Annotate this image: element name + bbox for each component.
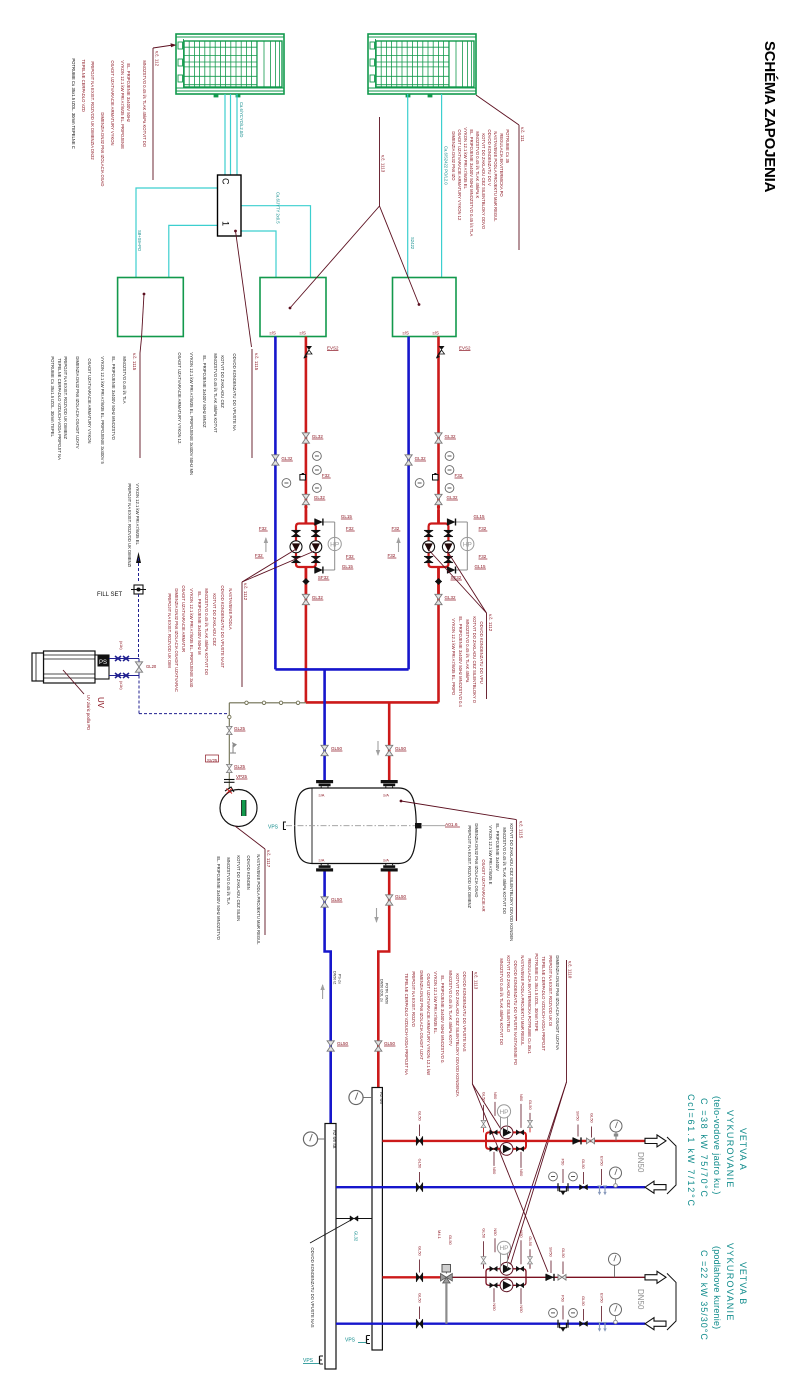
svg-text:EVS2: EVS2 — [459, 345, 471, 350]
svg-text:ODVOD KONDENZATU DO VPUSTE NAS: ODVOD KONDENZATU DO VPUSTE NAST — [220, 585, 225, 668]
svg-text:GL20: GL20 — [146, 664, 157, 669]
svg-text:v.č. 1115: v.č. 1115 — [132, 353, 137, 371]
valve GL25 b — [226, 764, 245, 773]
svg-text:OSADIT UZATVARACIE ARMATUR: OSADIT UZATVARACIE ARMATUR — [181, 585, 186, 652]
valve B return — [580, 1296, 588, 1326]
mixing valve M4.1 — [441, 1265, 453, 1324]
valve GL50 supply drop — [376, 741, 407, 756]
svg-text:KOTVIT DO ZAKLADU CEZ SILENTBL: KOTVIT DO ZAKLADU CEZ SILENTBLOKY ODVO — [481, 133, 486, 229]
gauge on supply manifold — [349, 1090, 372, 1104]
svg-text:GL50: GL50 — [482, 1092, 487, 1103]
valve branch A supply — [417, 1111, 423, 1145]
svg-text:ODVOD KONDENZATU DO VPUSTE NAS: ODVOD KONDENZATU DO VPUSTE NASTAVENIE PO — [513, 960, 518, 1065]
pipe branch B return — [336, 1322, 645, 1324]
svg-text:F32: F32 — [455, 473, 463, 478]
wire controller-unit2 a — [241, 206, 311, 278]
stub label at 432.5 — [433, 331, 440, 336]
svg-text:VETVA A: VETVA A — [738, 1128, 748, 1171]
svg-text:N50: N50 — [519, 1305, 524, 1313]
UV lamp unit — [32, 651, 109, 683]
stub label at 299.5 — [300, 331, 307, 336]
svg-text:PRIPOJIT NA EXIST. ROZVO: PRIPOJIT NA EXIST. ROZVO — [411, 971, 416, 1027]
svg-text:N50: N50 — [493, 1092, 498, 1100]
tank nozzle top return — [316, 780, 333, 798]
svg-text:DN50 IZOL 2x: DN50 IZOL 2x — [380, 979, 384, 1002]
svg-text:≥/S: ≥/S — [433, 331, 440, 336]
svg-text:GL32: GL32 — [354, 1231, 359, 1242]
instrument set circuit 2 — [405, 433, 463, 509]
svg-text:TEPELNE CERPADLO VZD: TEPELNE CERPADLO VZD — [81, 59, 86, 112]
buffer tank AKU — [286, 788, 423, 864]
svg-text:S2422: S2422 — [410, 237, 415, 250]
flow arrow up — [320, 984, 324, 999]
wire label 5 — [444, 146, 449, 185]
svg-text:GL50: GL50 — [418, 1246, 423, 1257]
pump group branch A — [481, 1092, 533, 1177]
svg-text:GL50: GL50 — [395, 894, 407, 899]
svg-text:v.č. 1115: v.č. 1115 — [519, 821, 524, 839]
gauge branch B return — [610, 1304, 622, 1324]
svg-text:GL50: GL50 — [418, 1159, 423, 1170]
branch A description — [686, 1094, 748, 1208]
label mix GL50 — [448, 1235, 453, 1246]
leader controller — [234, 230, 251, 347]
svg-text:GL50: GL50 — [337, 1041, 349, 1046]
branch B description — [699, 1243, 748, 1341]
svg-text:ODVOD KONDENZATU DO VPUSTE NA: ODVOD KONDENZATU DO VPUSTE NA — [232, 353, 237, 431]
svg-text:GL50: GL50 — [395, 746, 407, 751]
leader vessel — [235, 826, 265, 849]
leader box VJ1 — [140, 293, 145, 353]
wire TC2-unit3 a — [407, 94, 409, 278]
controller R1 — [218, 175, 242, 236]
wire controller-unit1 a — [136, 188, 218, 278]
annotation block 1110 — [499, 953, 573, 1082]
svg-text:F32: F32 — [479, 554, 487, 559]
svg-text:EL. PRIPOJENIE 3x400V 50Hz: EL. PRIPOJENIE 3x400V 50Hz — [126, 63, 131, 122]
svg-text:F32: F32 — [479, 526, 487, 531]
svg-text:VYKON 12.1 kW PRI A7/W35 EL. P: VYKON 12.1 kW PRI A7/W35 EL. PRIPOJENIE … — [100, 356, 105, 464]
svg-text:EL. PRIPOJENIE 3x400V 50Hz MNO: EL. PRIPOJENIE 3x400V 50Hz MNOZSTVO 0.4 — [458, 616, 463, 707]
pipe hot supply HP2 — [437, 337, 440, 703]
pipe branch A supply — [382, 1140, 645, 1142]
svg-text:MNOZSTVO 0.45 l/s TLAK 45kPa: MNOZSTVO 0.45 l/s TLAK 45kPa — [465, 619, 470, 683]
svg-text:VPS: VPS — [345, 1338, 356, 1344]
make-up pipe v1 — [138, 594, 140, 659]
svg-text:ODVOD KONDENZATU DO VPU: ODVOD KONDENZATU DO VPU — [479, 621, 484, 683]
svg-text:POTRUBIE Cu 35x1.5 IZOL. 30mm: POTRUBIE Cu 35x1.5 IZOL. 30mm TEPEL — [50, 356, 55, 437]
svg-text:NASTAVENIE PODLA PROJEKTU MaR: NASTAVENIE PODLA PROJEKTU MaR REGUL — [256, 854, 261, 945]
svg-text:DN50: DN50 — [636, 1152, 645, 1173]
gauge branch B supply — [609, 1253, 621, 1277]
annotation block 111 — [451, 95, 525, 250]
svg-text:Ca.6/S2422 PO/L2.0: Ca.6/S2422 PO/L2.0 — [444, 146, 449, 185]
svg-text:OSADIT UZATVARACIE ARMATURY VY: OSADIT UZATVARACIE ARMATURY VYKON 12. — [177, 352, 182, 444]
heat pump outdoor unit TC2 — [368, 34, 476, 97]
svg-text:MNOZSTVO 0.45 l/s TLA: MNOZSTVO 0.45 l/s TLA — [226, 857, 231, 904]
svg-text:GL15: GL15 — [341, 514, 353, 519]
svg-text:N50: N50 — [492, 1303, 497, 1311]
svg-text:F32: F32 — [255, 553, 263, 558]
indoor unit VJ2 — [260, 278, 326, 337]
svg-text:≥/S: ≥/S — [300, 331, 307, 336]
svg-text:≥/A: ≥/A — [383, 793, 389, 798]
svg-text:PRIPOJIT NA EXIST. ROZVOD UK D: PRIPOJIT NA EXIST. ROZVOD UK DIMENZI — [127, 483, 132, 567]
svg-text:MNOZSTVO 0.45 l/s TLAK 45kPa K: MNOZSTVO 0.45 l/s TLAK 45kPa KOTVIT DO — [502, 827, 507, 914]
svg-text:M4.1: M4.1 — [437, 1230, 442, 1240]
leader to pumps B2 — [509, 1082, 567, 1267]
svg-text:ODVOD KONDENZATU DO VPUSTE NAS: ODVOD KONDENZATU DO VPUSTE NAS — [310, 1247, 315, 1327]
dirt trap A return — [558, 1159, 568, 1196]
svg-text:(x1b): (x1b) — [119, 681, 123, 690]
make-up arrow — [136, 552, 141, 582]
svg-text:DIMENZIA DN32 PN6 IZOLACIA OSA: DIMENZIA DN32 PN6 IZOLACIA OSADIT UZATV — [75, 356, 80, 448]
svg-text:KOTVIT DO ZAKLADU CEZ SILENTBL: KOTVIT DO ZAKLADU CEZ SILENTBLOKY ODVOD … — [455, 973, 460, 1096]
svg-text:KOTVIT DO ZAKLADU CEZ: KOTVIT DO ZAKLADU CEZ — [220, 355, 225, 408]
leader to pumps A — [472, 1084, 502, 1131]
instrument set circuit 1 — [272, 433, 331, 509]
svg-text:N50: N50 — [519, 1230, 524, 1238]
annotation block 1115c — [400, 800, 524, 942]
valve GL50 below tank return — [321, 897, 343, 907]
svg-text:NASTAVENIE PODLA PROJEKTU MaR: NASTAVENIE PODLA PROJEKTU MaR REGUL — [520, 955, 525, 1046]
pipe note supply — [380, 979, 389, 1004]
pipe hot header — [306, 701, 439, 704]
gauge on return manifold — [303, 1132, 325, 1146]
thermometer A2 — [569, 1172, 578, 1181]
svg-text:UV ziaric podla PD: UV ziaric podla PD — [86, 695, 91, 730]
svg-text:v.č. 1112: v.č. 1112 — [243, 583, 248, 601]
svg-text:(podlahove kurenie): (podlahove kurenie) — [712, 1246, 722, 1329]
svg-text:GL50: GL50 — [331, 897, 343, 902]
indoor unit VJ1 — [118, 278, 184, 337]
svg-text:OSADIT UZATVARACIE ARMATURY VY: OSADIT UZATVARACIE ARMATURY VYKON 12.1 k… — [426, 973, 431, 1075]
svg-text:GL32: GL32 — [415, 456, 427, 461]
svg-text:FILL SET: FILL SET — [97, 592, 122, 598]
svg-text:v.č. 1110: v.č. 1110 — [568, 961, 573, 979]
svg-text:OSADIT UZATVARACIE ARMATURY VY: OSADIT UZATVARACIE ARMATURY VYKON 12 — [457, 129, 462, 221]
arrow branch A return — [645, 1181, 666, 1193]
wire label 2 — [276, 192, 281, 224]
leader box VJ2 — [289, 206, 380, 309]
svg-text:v.č. 1113: v.č. 1113 — [381, 155, 386, 173]
expansion vessel EN1 — [220, 787, 257, 827]
label UV — [63, 670, 105, 730]
svg-text:POTR. DN50: POTR. DN50 — [385, 983, 389, 1004]
arrow branch A supply DN50 — [636, 1135, 666, 1173]
wire label 1 — [239, 102, 244, 137]
make-up pipe v2 — [138, 659, 140, 676]
annotation block 1112a — [167, 549, 315, 692]
svg-text:POTRUBIE Cu 35x1.5 IZOL. 30mm: POTRUBIE Cu 35x1.5 IZOL. 30mm TEPE — [534, 953, 539, 1031]
UV port 1 — [109, 656, 139, 661]
svg-text:EV50: EV50 — [600, 1293, 605, 1304]
svg-text:Ccl=61.1 kW 7/12°C: Ccl=61.1 kW 7/12°C — [686, 1094, 696, 1208]
annotation block 1113b — [404, 970, 479, 1096]
svg-text:PRIPOJIT NA EXIST. ROZVOD UK D: PRIPOJIT NA EXIST. ROZVOD UK DIMENZ — [63, 356, 68, 439]
pipe hot drop to tank — [388, 702, 391, 780]
indoor unit VJ3 — [393, 278, 457, 337]
svg-text:GL32: GL32 — [281, 456, 293, 461]
svg-text:v.č. 1113: v.č. 1113 — [474, 972, 479, 990]
pipe return drop to tank — [323, 669, 326, 780]
svg-text:VETVA B: VETVA B — [738, 1262, 748, 1305]
svg-text:TEPELNE CERPADLO VZDUCH-VODA P: TEPELNE CERPADLO VZDUCH-VODA PRIPOJIT NA — [57, 358, 62, 460]
svg-text:MNOZSTVO 0.45 l/s TLAK 45kPa K: MNOZSTVO 0.45 l/s TLAK 45kPa K — [475, 131, 480, 198]
svg-text:F32: F32 — [346, 554, 354, 559]
drain B return — [597, 1293, 607, 1332]
heat pump outdoor unit TC1 — [176, 34, 284, 97]
svg-text:ODVOD KONDENZATU DO V: ODVOD KONDENZATU DO V — [487, 129, 492, 186]
ref label 1113 — [380, 117, 386, 206]
svg-text:GL50: GL50 — [590, 1113, 595, 1124]
svg-text:N50: N50 — [493, 1228, 498, 1236]
pipe return HP1 — [274, 337, 277, 670]
stub label at 402.5 — [403, 331, 410, 336]
label M4.1 — [437, 1230, 442, 1240]
annotation block V1115b — [177, 349, 259, 475]
svg-text:DIMENZIA DN32 PN6 IZOLACIA OSA: DIMENZIA DN32 PN6 IZOLACIA OSADIT UZATVA — [555, 955, 560, 1050]
valve branch B return — [417, 1293, 423, 1328]
svg-text:GL25: GL25 — [234, 764, 246, 769]
valve A return — [580, 1159, 588, 1190]
svg-text:GL50: GL50 — [528, 1236, 533, 1247]
svg-text:C =38 kW 75/70°C: C =38 kW 75/70°C — [699, 1098, 709, 1198]
svg-text:Ca.6/JYTY 2x0.5: Ca.6/JYTY 2x0.5 — [276, 192, 281, 224]
svg-text:GL50: GL50 — [418, 1293, 423, 1304]
svg-text:VYKON 12.1 kW PRI A7/W35 EL. P: VYKON 12.1 kW PRI A7/W35 EL. PRIPOJENIE — [120, 60, 125, 149]
drain SV25 — [206, 742, 238, 763]
svg-text:EV50: EV50 — [600, 1156, 605, 1167]
svg-text:ODVOD KONDENZATU DO VPUSTE NAS: ODVOD KONDENZATU DO VPUSTE NAS — [462, 971, 467, 1051]
pipe branch B supply from manifold — [382, 1276, 441, 1278]
svg-text:SV50: SV50 — [549, 1247, 554, 1258]
svg-text:PS: PS — [99, 660, 107, 666]
svg-text:GL32: GL32 — [314, 495, 326, 500]
supply manifold RS — [372, 1088, 384, 1351]
svg-text:GL50: GL50 — [561, 1248, 566, 1259]
svg-text:VPS: VPS — [268, 825, 279, 831]
pipe branch B supply mixed — [452, 1276, 645, 1278]
bypass valve — [336, 1216, 372, 1242]
valve branch B supply — [417, 1246, 423, 1282]
svg-text:REGULACIA EKVITERMICKA PO: REGULACIA EKVITERMICKA PO — [499, 133, 504, 197]
svg-text:F32: F32 — [259, 526, 267, 531]
svg-text:DIMENZIA DN32 PN6 IZOLACIA OSA: DIMENZIA DN32 PN6 IZOLACIA OSADIT UZAT — [419, 970, 424, 1060]
svg-text:≥/A: ≥/A — [319, 793, 325, 798]
vent EVS2 circuit 2 — [436, 345, 471, 358]
svg-text:MNOZSTVO 0.45 l/s TLAK 45kPa K: MNOZSTVO 0.45 l/s TLAK 45kPa KOTVIT DO — [499, 958, 504, 1045]
svg-text:F32: F32 — [322, 473, 330, 478]
svg-text:F32: F32 — [346, 526, 354, 531]
svg-text:GL32: GL32 — [445, 434, 457, 439]
svg-text:DIMENZIA DN32 PN6 IZOLACIA OSA: DIMENZIA DN32 PN6 IZOLACIA OSAD — [100, 112, 105, 186]
svg-text:GL50: GL50 — [528, 1100, 533, 1111]
leader box VJ3 — [380, 206, 421, 306]
svg-text:1: 1 — [221, 221, 231, 226]
svg-text:ODVOD KONDEN: ODVOD KONDEN — [246, 855, 251, 889]
svg-text:GL32: GL32 — [312, 434, 324, 439]
svg-text:v.č. 111: v.č. 111 — [520, 127, 525, 142]
wire controller-unit1 b — [169, 225, 218, 277]
svg-text:KOTVIT DO ZAKLADU CEZ SILEN: KOTVIT DO ZAKLADU CEZ SILEN — [236, 855, 241, 921]
svg-text:UV: UV — [96, 697, 105, 709]
svg-text:≥/S: ≥/S — [270, 331, 277, 336]
svg-text:REGULACIA EKVITERMICKA POTRUBI: REGULACIA EKVITERMICKA POTRUBIE Cu 35x1 — [527, 958, 532, 1054]
svg-text:TEPELNE CERPADLO VZDUCH-VODA P: TEPELNE CERPADLO VZDUCH-VODA PRIPOJIT NA — [404, 973, 409, 1075]
svg-text:GL50: GL50 — [418, 1111, 423, 1122]
valve after check A — [587, 1113, 595, 1144]
annotation block 1112b — [429, 550, 493, 708]
tank nozzle bottom return — [316, 858, 333, 872]
svg-text:VYKON 12.1 kW PRI A7/W35 EL. P: VYKON 12.1 kW PRI A7/W35 EL. PRIPOJENIE … — [189, 352, 194, 475]
svg-text:VP25: VP25 — [236, 774, 248, 779]
svg-text:SV50: SV50 — [576, 1111, 581, 1122]
wire label 3 — [137, 230, 142, 252]
svg-text:RZ 6/5 SB: RZ 6/5 SB — [332, 1130, 337, 1149]
title SCHÉMA ZAPOJENIA — [761, 41, 778, 193]
note fill line — [127, 483, 140, 567]
svg-text:DN50 IZ: DN50 IZ — [333, 971, 337, 985]
svg-text:GL32: GL32 — [445, 595, 457, 600]
label GL20 — [146, 664, 157, 669]
svg-text:EL. PRIPOJENIE 3x400V 50Hz MNO: EL. PRIPOJENIE 3x400V 50Hz MNOZSTVO — [111, 356, 116, 440]
svg-text:Ca.6/YCYO/L2.0/D: Ca.6/YCYO/L2.0/D — [239, 102, 244, 137]
valve GL50 return drop — [321, 745, 343, 755]
svg-text:VYKUROVANIE: VYKUROVANIE — [725, 1110, 735, 1189]
return manifold RV — [325, 1124, 337, 1370]
expansion line horizontal — [229, 701, 306, 704]
svg-text:NASTAVENIE PODLA: NASTAVENIE PODLA — [228, 588, 233, 629]
bracket branch A — [667, 1137, 676, 1194]
svg-text:GL32: GL32 — [312, 595, 324, 600]
drain A return — [597, 1156, 607, 1195]
svg-text:VYKON 12.1 kW PRI A7/W35 EL: VYKON 12.1 kW PRI A7/W35 EL — [135, 483, 140, 545]
svg-text:(x1b): (x1b) — [119, 641, 123, 650]
svg-text:PRIPOJIT NA EXIST. ROZVOD UK D: PRIPOJIT NA EXIST. ROZVOD UK DIMENZIA DN… — [90, 61, 95, 160]
svg-text:GL15: GL15 — [474, 514, 486, 519]
svg-text:v.č. 1112: v.č. 1112 — [488, 614, 493, 632]
svg-text:VYKON 12.1 kW PRI A7/W35 EL: VYKON 12.1 kW PRI A7/W35 EL — [463, 127, 468, 189]
tank nozzle bottom supply — [381, 858, 398, 872]
svg-text:F32: F32 — [388, 553, 396, 558]
svg-text:MNOZSTVO 0.45 l/s TLAK 45kPa K: MNOZSTVO 0.45 l/s TLAK 45kPa KOTV — [448, 970, 453, 1046]
svg-text:MNOZSTVO 0.45 l/s TLAK 45kPa K: MNOZSTVO 0.45 l/s TLAK 45kPa KOTVIT DO — [142, 60, 147, 147]
drain VPS supply manifold — [345, 1336, 370, 1344]
svg-text:GL15: GL15 — [342, 564, 354, 569]
svg-text:MNOZSTVO 0.45 l/s TLAK 45kPa K: MNOZSTVO 0.45 l/s TLAK 45kPa KOTVIT — [213, 353, 218, 433]
UV port 2 — [109, 673, 139, 678]
svg-text:EVS2: EVS2 — [327, 345, 339, 350]
wire controller-unit2 b — [241, 231, 276, 278]
annotation block 112 — [71, 43, 177, 186]
drain VPS return manifold — [303, 1356, 323, 1364]
svg-text:v.č. 1117: v.č. 1117 — [266, 850, 271, 868]
pipe return HP2 — [407, 337, 410, 670]
wire label 4 — [410, 237, 415, 250]
svg-text:VYKON 12.1 kW PRI A7/W35 EL. P: VYKON 12.1 kW PRI A7/W35 EL. PRIPO — [451, 618, 456, 696]
wire TC2-unit3 b — [441, 94, 443, 278]
svg-text:KOTVIT DO ZAKLADU CEZ SILENTBL: KOTVIT DO ZAKLADU CEZ SILENTBLO — [506, 955, 511, 1032]
thermometer B1 — [549, 1309, 558, 1318]
svg-text:DIMENZIA DN32 PN6 IZOLACIA OSA: DIMENZIA DN32 PN6 IZOLACIA OSADIT UZATVA… — [174, 588, 179, 692]
valve GL50 below tank supply — [374, 894, 406, 923]
svg-text:N50: N50 — [519, 1094, 524, 1102]
svg-text:(telo-vodove jadro ku.): (telo-vodove jadro ku.) — [712, 1096, 722, 1195]
valve after check B — [558, 1248, 566, 1280]
annotation block V1115a — [50, 353, 140, 465]
bypass note — [310, 1220, 351, 1328]
svg-text:v.č. 1115: v.č. 1115 — [254, 353, 259, 371]
pipe return header — [275, 668, 408, 671]
thermometer A1 — [549, 1172, 558, 1181]
svg-text:MNOZSTVO 0.45 l/s TLA: MNOZSTVO 0.45 l/s TLA — [122, 356, 127, 403]
thermometer B2 — [569, 1309, 578, 1318]
svg-text:≥/S: ≥/S — [403, 331, 410, 336]
leader to pumps B3 — [504, 1082, 567, 1271]
svg-text:VYKON 12.1 kW PRI A7/W35 EL. P: VYKON 12.1 kW PRI A7/W35 EL. PRIPOJENIE … — [189, 588, 194, 688]
svg-text:GL50: GL50 — [448, 1235, 453, 1246]
svg-text:POTRUBIE Cu 35: POTRUBIE Cu 35 — [505, 129, 510, 163]
svg-text:N50: N50 — [492, 1167, 497, 1175]
svg-text:GL50: GL50 — [331, 746, 343, 751]
check valve branch A — [573, 1111, 581, 1144]
pipe note return — [333, 971, 342, 985]
valve GL50 manifold supply — [375, 1041, 396, 1051]
pipe supply tank-manifold — [378, 872, 389, 1088]
pipe return tank-manifold — [325, 872, 331, 1124]
svg-text:OSADIT UZATVARACIE ARMATURY VY: OSADIT UZATVARACIE ARMATURY VYKON — [87, 358, 92, 443]
svg-text:PRIPOJIT NA EXIST. ROZVOD UK D: PRIPOJIT NA EXIST. ROZVOD UK DIM — [167, 593, 172, 668]
svg-text:PRIPOJIT NA EXIST. ROZVOD UK D: PRIPOJIT NA EXIST. ROZVOD UK DIMENZ — [467, 825, 472, 908]
wire TC1-controller c — [236, 94, 238, 175]
svg-text:NASTAVENIE PODLA PROJEKTU MaR: NASTAVENIE PODLA PROJEKTU MaR REGUL — [493, 131, 498, 222]
svg-text:C: C — [221, 178, 231, 185]
svg-text:DN50: DN50 — [636, 1289, 645, 1310]
svg-text:≥/A: ≥/A — [319, 858, 325, 863]
svg-text:RZ 6/5: RZ 6/5 — [379, 1092, 384, 1105]
leader to pumps B1 — [472, 1084, 548, 1272]
svg-text:GL25: GL25 — [234, 726, 246, 731]
svg-text:MNOZSTVO 0.45 l/s TLAK 45kPa K: MNOZSTVO 0.45 l/s TLAK 45kPa KOTVIT DO — [204, 588, 209, 675]
valve GL50 manifold return — [327, 1041, 348, 1051]
svg-text:VYKON 12.1 kW PRI A7/W35 EL.: VYKON 12.1 kW PRI A7/W35 EL. — [433, 971, 438, 1034]
fill set valve — [97, 585, 146, 598]
pipe branch A return — [336, 1186, 645, 1188]
flange VP25 — [224, 774, 248, 783]
svg-text:EL. PRIPOJENIE 3x400V 50Hz MNO: EL. PRIPOJENIE 3x400V 50Hz MNOZSTVO 0. — [440, 975, 445, 1063]
svg-text:GL50: GL50 — [581, 1296, 586, 1307]
svg-text:KOTVIT DO ZAKLADU CEZ: KOTVIT DO ZAKLADU CEZ — [212, 593, 217, 646]
svg-text:GL50: GL50 — [482, 1228, 487, 1239]
bracket branch B — [667, 1273, 676, 1330]
vent EVS2 circuit 1 — [304, 345, 340, 358]
svg-text:EL. PRIPOJENIE 3x400V 50Hz MNO: EL. PRIPOJENIE 3x400V 50Hz MNOZSTVO 0.45… — [469, 129, 474, 236]
svg-text:VYKUROVANIE: VYKUROVANIE — [725, 1243, 735, 1322]
svg-text:F50: F50 — [561, 1295, 566, 1303]
svg-text:SCHÉMA ZAPOJENIA: SCHÉMA ZAPOJENIA — [761, 41, 778, 193]
tank sensor A01.6 — [416, 822, 460, 828]
svg-text:N50: N50 — [519, 1169, 524, 1177]
svg-text:SF32: SF32 — [318, 575, 329, 580]
svg-text:GL32: GL32 — [447, 495, 459, 500]
svg-text:GL50: GL50 — [384, 1041, 396, 1046]
svg-text:EL. PRIPOJENIE 3x400V: EL. PRIPOJENIE 3x400V — [495, 823, 500, 871]
svg-text:v.č. 112: v.č. 112 — [155, 51, 160, 67]
pipe hot supply HP1 — [305, 337, 308, 703]
valve branch A return — [417, 1159, 423, 1192]
tank nozzle top supply — [381, 780, 398, 798]
